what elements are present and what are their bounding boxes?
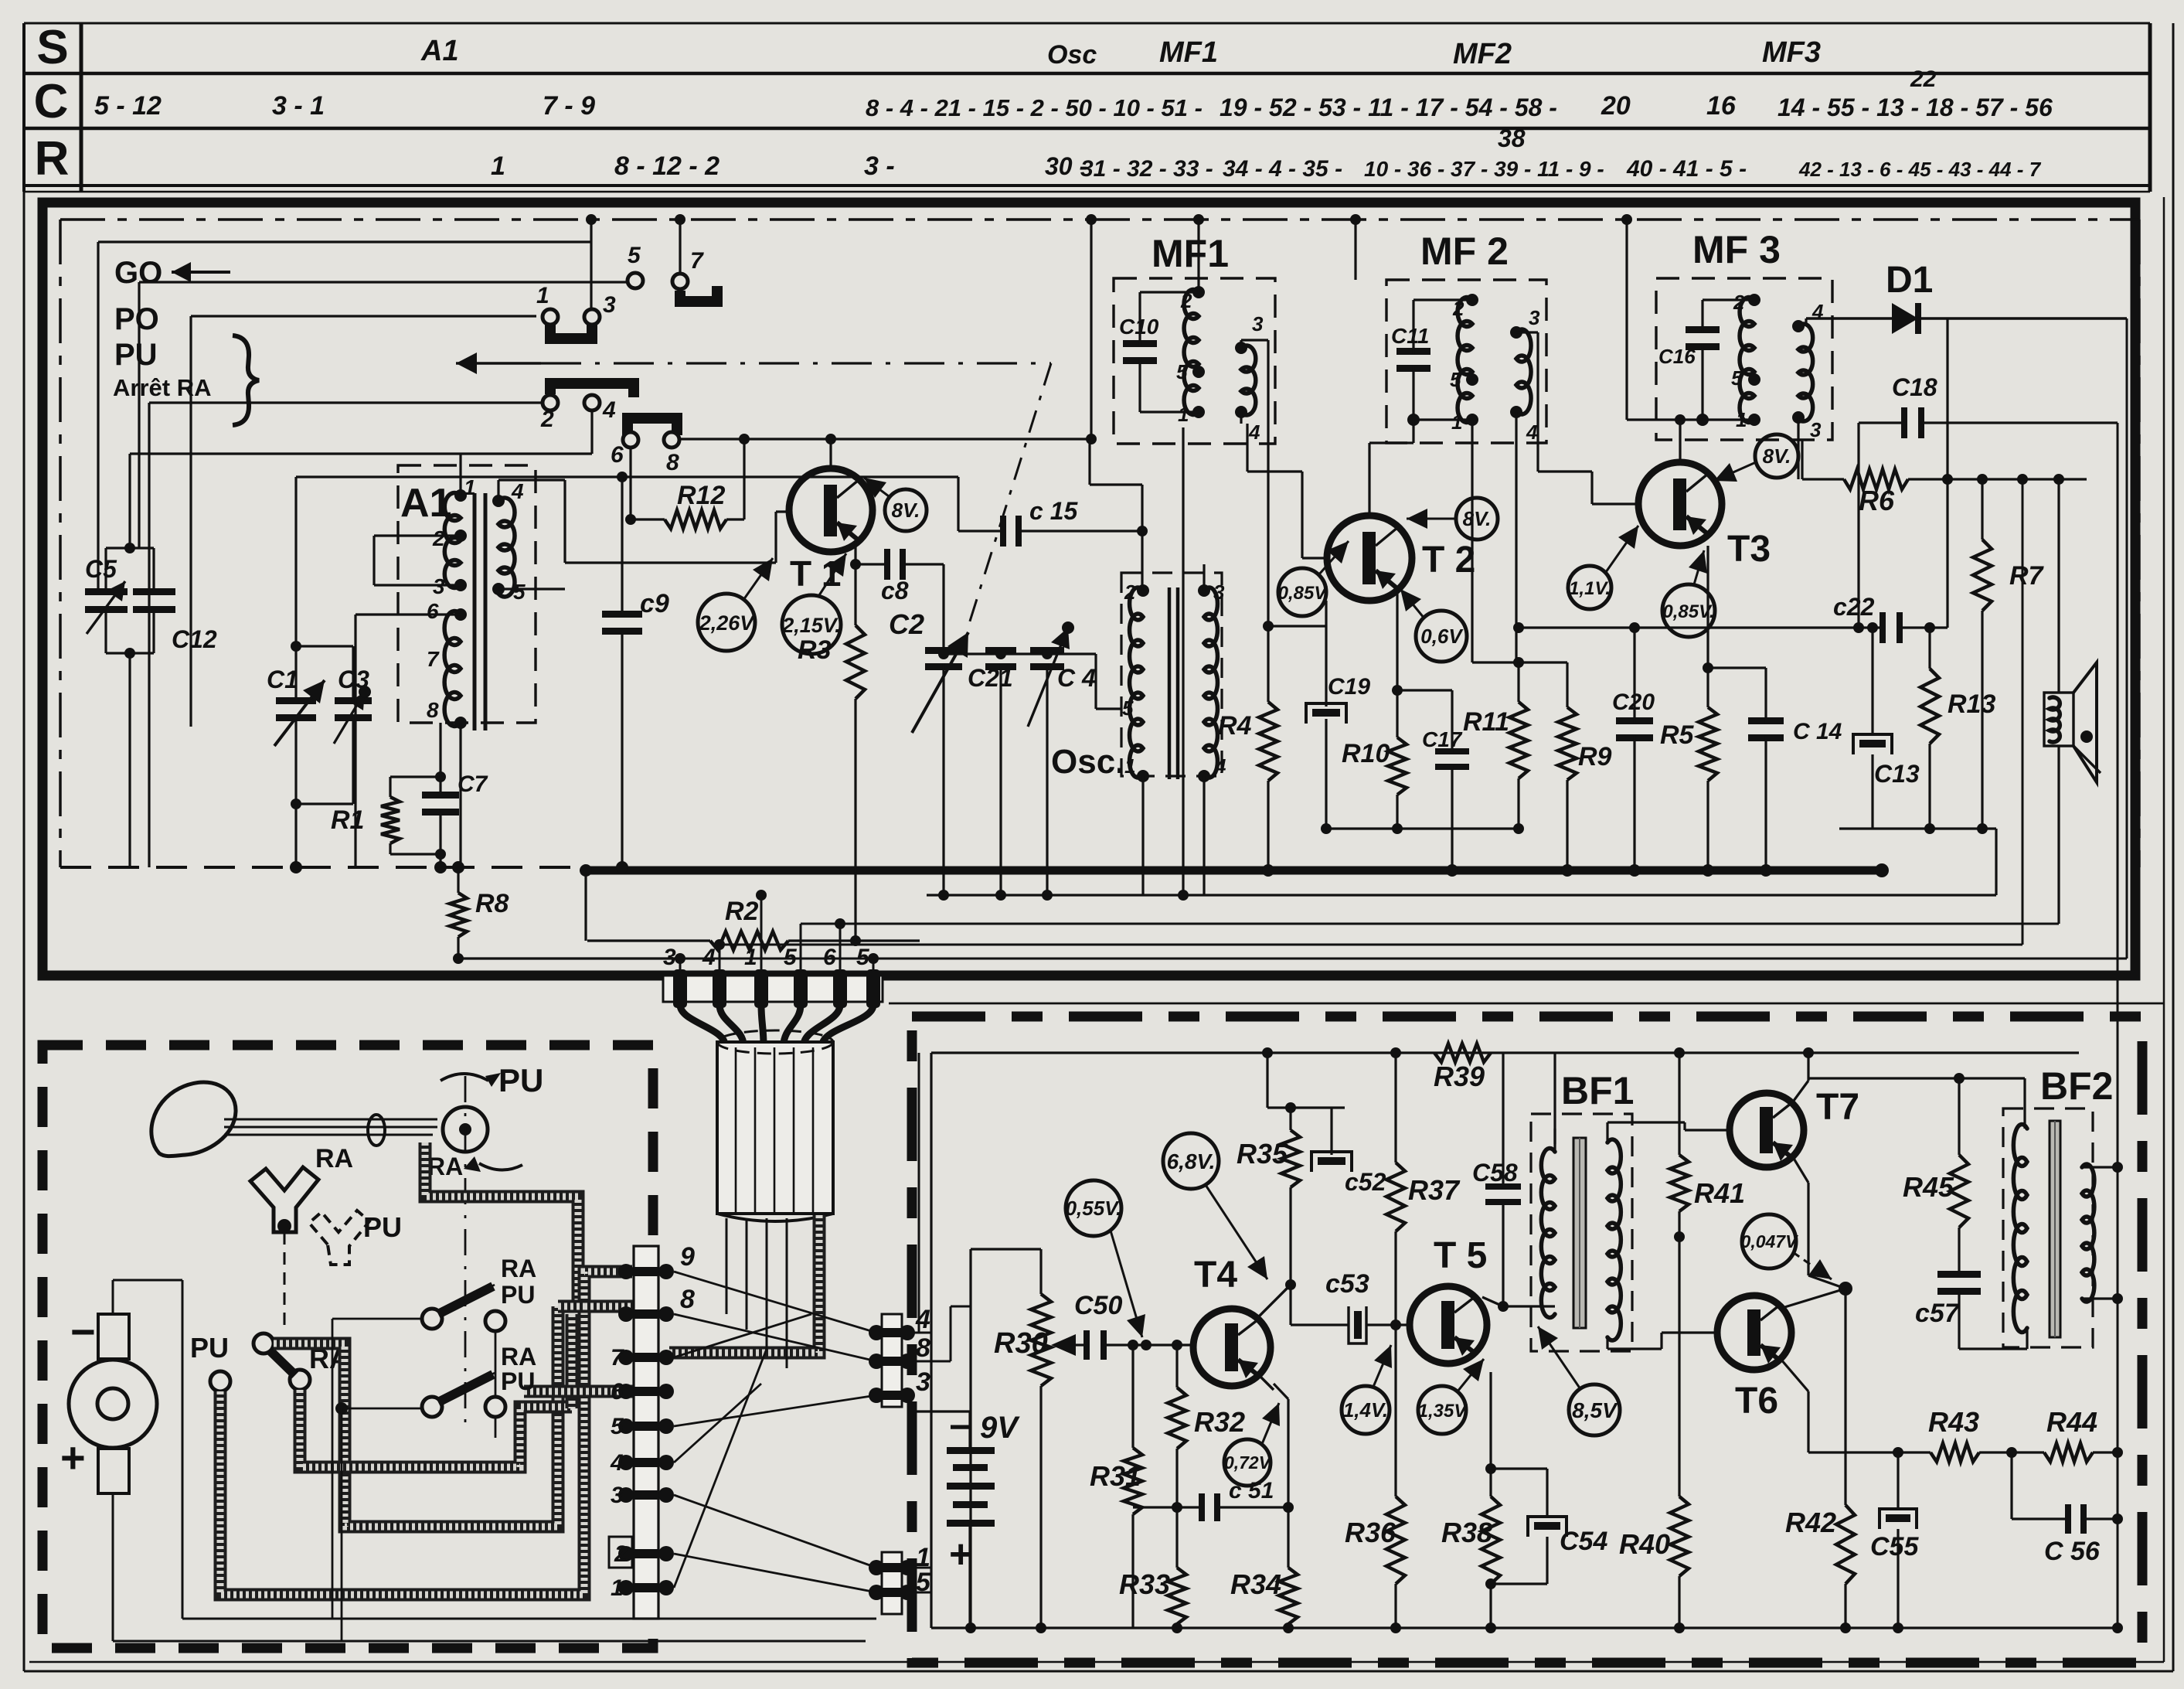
wire contact3 up: [590, 220, 592, 308]
svg-text:R33: R33: [1119, 1568, 1170, 1600]
svg-text:R44: R44: [2046, 1406, 2097, 1438]
Osc secondary top wire: [1203, 564, 1205, 591]
svg-text:c22: c22: [1833, 593, 1875, 621]
svg-text:c52: c52: [1345, 1168, 1386, 1196]
osc feed wire: [1094, 654, 1097, 709]
upper block inner dash-dot border left: [59, 220, 62, 867]
gang linkage diagonal: [968, 363, 1051, 626]
T7 collector rail: [1808, 1077, 2025, 1079]
switch contact 5: [628, 273, 643, 288]
strip terminal 9: [618, 1264, 634, 1279]
terminal 3: [869, 1388, 884, 1403]
svg-text:MF1: MF1: [1152, 232, 1229, 275]
svg-text:5: 5: [628, 243, 641, 268]
svg-text:−: −: [70, 1307, 96, 1356]
MF3 secondary coil: [1798, 324, 1813, 421]
svg-text:Osc.: Osc.: [1051, 743, 1124, 781]
transformer BF1 dashed box: [1531, 1114, 1632, 1351]
cable from RA lever: [274, 1306, 558, 1527]
T2 emitter wire: [1396, 589, 1398, 690]
T4 emitter to R34: [1231, 1386, 1233, 1399]
svg-text:0,6V: 0,6V: [1420, 625, 1464, 648]
svg-text:4: 4: [602, 397, 616, 423]
svg-text:0,85V.: 0,85V.: [1662, 601, 1714, 622]
svg-text:9: 9: [680, 1242, 695, 1272]
bias wire MF2 pin5: [1472, 661, 1567, 663]
svg-text:T4: T4: [1194, 1255, 1237, 1296]
AF block dashed border: [912, 1016, 2142, 1663]
svg-text:R8: R8: [475, 889, 509, 918]
gang caps top wire: [944, 652, 1096, 655]
transistor T4: [1193, 1309, 1271, 1386]
svg-text:34 - 4 - 35 -: 34 - 4 - 35 -: [1223, 156, 1342, 182]
mid switch pair upper RA PU: [422, 1309, 442, 1329]
svg-text:40 - 41 - 5 -: 40 - 41 - 5 -: [1626, 156, 1747, 182]
voltage 0,047V: [1742, 1214, 1796, 1268]
MF3 secondary pin3 wire down: [1797, 417, 1799, 479]
voltage 8V at T1: [885, 489, 927, 531]
svg-text:3 -: 3 -: [864, 152, 895, 181]
right terminal block lower: [882, 1552, 902, 1614]
voltage 0,85V at T3: [1662, 584, 1715, 637]
MF2 secondary pin3 wire: [1516, 331, 1538, 333]
mid switch pair lower RA PU: [422, 1397, 442, 1417]
svg-text:8,5V: 8,5V: [1572, 1398, 1618, 1422]
transistor T5: [1410, 1286, 1487, 1364]
BF2 secondary top: [2082, 1166, 2118, 1168]
svg-text:c9: c9: [640, 589, 669, 618]
svg-text:2: 2: [1733, 291, 1745, 314]
svg-text:C58: C58: [1472, 1159, 1518, 1187]
svg-text:3: 3: [1213, 581, 1225, 604]
svg-text:31 - 32 - 33 -: 31 - 32 - 33 -: [1080, 156, 1213, 182]
T7 emitter down: [1793, 1157, 1808, 1183]
svg-text:0,72V: 0,72V: [1224, 1452, 1272, 1473]
svg-text:C 14: C 14: [1793, 719, 1842, 744]
svg-text:3: 3: [603, 292, 616, 318]
strip terminal 6: [618, 1384, 634, 1399]
vertical D1 output: [1946, 318, 1948, 479]
cable bundle fan wires: [680, 1005, 725, 1045]
svg-text:5: 5: [1731, 366, 1743, 390]
wire to contact 2: [149, 401, 542, 404]
svg-text:3 - 1: 3 - 1: [272, 91, 325, 121]
C1 C3 bottom wires: [294, 720, 297, 804]
svg-text:R3: R3: [798, 635, 832, 665]
connector pin 4: [713, 969, 726, 1008]
voltage 0,55V: [1066, 1180, 1121, 1236]
svg-text:C19: C19: [1328, 674, 1370, 700]
svg-text:C 4: C 4: [1057, 664, 1096, 692]
connector pin 3: [673, 969, 687, 1008]
svg-text:PU: PU: [501, 1367, 535, 1395]
transistor T7: [1730, 1093, 1804, 1167]
svg-text:Osc: Osc: [1047, 40, 1097, 70]
svg-text:4: 4: [1214, 754, 1226, 778]
voltage 1,4V: [1342, 1386, 1390, 1434]
connector pin 6: [833, 969, 847, 1008]
svg-text:R34: R34: [1230, 1568, 1281, 1600]
BF2 secondary bottom: [2082, 1297, 2118, 1299]
MF2 pin5 wire down: [1471, 380, 1473, 443]
pulley axis dash line: [464, 1076, 467, 1430]
svg-text:2: 2: [614, 1541, 628, 1567]
svg-text:RA: RA: [427, 1153, 463, 1180]
AF bottom wire: [931, 1626, 2118, 1629]
svg-text:R45: R45: [1903, 1171, 1954, 1203]
svg-text:1,1V.: 1,1V.: [1569, 578, 1611, 599]
svg-text:3: 3: [1252, 312, 1264, 335]
svg-text:8V.: 8V.: [1463, 507, 1492, 530]
svg-text:7: 7: [611, 1345, 624, 1371]
svg-text:R2: R2: [725, 897, 759, 926]
header table frame: [24, 22, 2150, 25]
svg-text:S: S: [36, 21, 68, 74]
svg-text:C55: C55: [1870, 1532, 1919, 1561]
R1 C7 wires: [389, 777, 391, 797]
svg-text:MF 3: MF 3: [1692, 228, 1781, 271]
capacitor C8: [856, 563, 886, 565]
BF2 secondary coil: [2082, 1164, 2094, 1302]
svg-text:R13: R13: [1948, 690, 1995, 719]
svg-text:R10: R10: [1342, 739, 1390, 768]
MF3 top feed: [1625, 220, 1628, 420]
svg-text:8: 8: [916, 1333, 930, 1363]
svg-text:T3: T3: [1727, 529, 1771, 570]
AF inner wires from pins: [919, 1052, 931, 1054]
connector pin 5: [866, 969, 880, 1008]
voltage 0,85V at T2: [1278, 568, 1326, 616]
Osc wires: [1141, 531, 1143, 591]
BF1 secondary top wire: [1606, 1122, 1608, 1142]
switch contact 2-4: [550, 383, 634, 397]
Osc core: [1168, 587, 1172, 779]
MF1 wires: [1138, 292, 1141, 346]
Y lever RA: [250, 1167, 318, 1232]
capacitor C16: [1686, 326, 1720, 333]
svg-text:R9: R9: [1578, 742, 1612, 771]
svg-text:1,4V.: 1,4V.: [1343, 1398, 1388, 1422]
MF2 primary pin1 to T2 collector: [1412, 420, 1414, 443]
T1 collector wire: [829, 439, 832, 469]
svg-text:5: 5: [513, 580, 526, 604]
voltage 6,8V: [1163, 1133, 1219, 1189]
svg-text:R1: R1: [331, 805, 364, 835]
transformer BF2 dashed box: [2003, 1108, 2093, 1347]
capacitor C15: [957, 477, 959, 531]
svg-text:R7: R7: [2009, 561, 2045, 591]
Y lever PU dashed: [309, 1211, 369, 1265]
right terminal block upper: [882, 1314, 902, 1407]
svg-text:3: 3: [663, 945, 676, 970]
svg-text:2: 2: [432, 526, 445, 550]
terminal 5: [869, 1585, 884, 1600]
T2 collector wire: [1368, 443, 1370, 516]
head wires to pulley: [224, 1119, 437, 1121]
motor: [69, 1360, 157, 1448]
svg-text:5: 5: [611, 1414, 624, 1439]
BF1 secondary coil: [1607, 1139, 1621, 1340]
svg-text:8V.: 8V.: [892, 499, 920, 522]
svg-text:PU: PU: [498, 1062, 543, 1098]
MF2 secondary pin4 down: [1515, 412, 1517, 420]
tape head balloon: [151, 1082, 236, 1156]
svg-text:R5: R5: [1660, 720, 1695, 750]
terminal strip: [634, 1246, 658, 1619]
svg-text:D1: D1: [1886, 260, 1933, 301]
svg-text:PO: PO: [114, 302, 159, 336]
svg-text:MF2: MF2: [1453, 38, 1512, 70]
terminal 8: [869, 1354, 884, 1369]
transistor T1: [789, 468, 873, 552]
svg-text:BF2: BF2: [2040, 1064, 2113, 1108]
A1 primary coil: [444, 493, 461, 588]
battery wires: [968, 1411, 971, 1447]
T1 base wire: [776, 510, 789, 512]
svg-text:Arrêt RA: Arrêt RA: [113, 374, 211, 401]
svg-text:R40: R40: [1619, 1528, 1670, 1560]
cable cylinder: [717, 1042, 833, 1214]
long wire C18 to AF right: [2117, 423, 2119, 1628]
svg-text:42 - 13 - 6 - 45 - 43 - 44 - 7: 42 - 13 - 6 - 45 - 43 - 44 - 7: [1798, 158, 2042, 181]
wire y812 AGC: [1513, 622, 1524, 633]
connector pin 1: [754, 969, 768, 1008]
capacitor C10: [1123, 340, 1157, 347]
switch contact 6-8: [628, 418, 677, 435]
svg-text:2,26V: 2,26V: [699, 611, 756, 635]
strip terminal 4: [618, 1455, 634, 1470]
svg-text:4: 4: [702, 945, 716, 970]
svg-text:c8: c8: [881, 577, 909, 604]
svg-text:R12: R12: [677, 481, 725, 510]
terminal 1: [869, 1560, 884, 1575]
A1 core: [473, 493, 477, 730]
wire y1158 long: [927, 894, 1996, 896]
svg-text:6: 6: [611, 442, 624, 468]
voltage 2,15V: [782, 595, 841, 654]
svg-text:7 - 9: 7 - 9: [543, 91, 595, 121]
svg-text:6,8V.: 6,8V.: [1167, 1149, 1216, 1173]
svg-text:7: 7: [427, 647, 440, 671]
svg-text:8V.: 8V.: [1763, 444, 1791, 468]
svg-text:1: 1: [744, 945, 757, 970]
transistor T3: [1638, 462, 1722, 546]
strip terminal 1: [618, 1580, 634, 1595]
T4 base bias: [1132, 1345, 1134, 1421]
transformer A1 dashed box: [398, 465, 536, 723]
MF2 wires: [1412, 300, 1414, 354]
svg-text:c 51: c 51: [1229, 1478, 1274, 1503]
C1 C3 top wires: [294, 646, 297, 698]
lower left block dashed border: [43, 1045, 653, 1648]
wire R8 bottom: [458, 957, 680, 959]
svg-text:8: 8: [427, 698, 439, 722]
svg-text:C16: C16: [1658, 345, 1696, 368]
left switch PU contact: [210, 1371, 230, 1391]
svg-text:22: 22: [1910, 66, 1937, 92]
tuning dash-dot line with arrow: [456, 362, 541, 364]
transistor T2: [1327, 516, 1412, 601]
T7 collector: [1793, 1081, 1808, 1105]
T4 collector: [1256, 1285, 1291, 1320]
svg-text:3: 3: [916, 1367, 930, 1397]
capacitor C11: [1396, 348, 1430, 355]
chassis dashed line left: [60, 866, 586, 869]
svg-text:T6: T6: [1735, 1381, 1778, 1422]
capacitor C52: [1318, 1157, 1345, 1165]
svg-text:+: +: [60, 1433, 86, 1482]
wire below upper block: [889, 1003, 2164, 1005]
voltage 8V at T3: [1755, 434, 1798, 478]
capacitor C21: [985, 647, 1016, 654]
BF1 wires: [1553, 1144, 1556, 1152]
pulley PU: [443, 1107, 488, 1152]
MF2 transformer dashed box: [1386, 280, 1546, 443]
svg-text:3: 3: [1529, 306, 1540, 329]
svg-text:−: −: [949, 1407, 971, 1448]
voltage 0,72V: [1224, 1439, 1271, 1486]
svg-text:5: 5: [784, 945, 798, 970]
svg-text:PU: PU: [190, 1332, 229, 1364]
cable from RA contact down: [300, 1390, 572, 1467]
svg-text:MF 2: MF 2: [1420, 230, 1509, 273]
svg-text:38: 38: [1498, 124, 1526, 152]
svg-text:C12: C12: [172, 625, 217, 653]
svg-text:6: 6: [611, 1379, 624, 1405]
BF2 wires: [2026, 1078, 2028, 1129]
strip terminal 7: [618, 1350, 634, 1365]
svg-text:7: 7: [690, 248, 704, 274]
svg-text:9V: 9V: [980, 1411, 1020, 1445]
svg-text:R4: R4: [1218, 711, 1252, 741]
svg-text:R43: R43: [1928, 1406, 1979, 1438]
wire y313: [98, 240, 591, 243]
svg-text:4: 4: [610, 1450, 624, 1476]
svg-text:4: 4: [1526, 421, 1538, 444]
svg-text:C17: C17: [1422, 727, 1463, 751]
svg-text:T 2: T 2: [1422, 540, 1475, 581]
connector pin risers: [679, 959, 682, 976]
oscillator transformer dashed box: [1121, 573, 1222, 776]
motor wires: [112, 1280, 114, 1314]
T6 collector down: [1781, 1359, 1808, 1391]
svg-text:C50: C50: [1074, 1291, 1122, 1320]
svg-text:5: 5: [1176, 360, 1188, 383]
wire bus risers: [584, 867, 587, 941]
cable from PU contact down: [220, 1305, 584, 1595]
transistor T6: [1717, 1296, 1791, 1370]
T6 emitter up: [1781, 1299, 1808, 1306]
svg-text:1: 1: [536, 283, 549, 308]
MF3 wires: [1701, 300, 1703, 332]
selector brace: [233, 335, 259, 425]
svg-text:c57: c57: [1915, 1299, 1961, 1328]
svg-text:0,85V: 0,85V: [1278, 583, 1328, 604]
wire contact8 right: [679, 438, 744, 440]
AF secondary rail: [1267, 1106, 1345, 1108]
MF1 primary coil: [1184, 289, 1199, 414]
svg-text:19 - 52 - 53 - 11 - 17 - 54 -: 19 - 52 - 53 - 11 - 17 - 54 - 58 -: [1220, 94, 1557, 121]
voltage 8,5V: [1569, 1384, 1620, 1435]
strip terminal 3: [618, 1487, 634, 1503]
svg-text:4: 4: [915, 1305, 930, 1334]
svg-text:C1: C1: [267, 666, 298, 693]
speaker wires: [2057, 479, 2060, 693]
upper block inner dash-dot border right: [2138, 220, 2141, 867]
svg-text:5 - 12: 5 - 12: [94, 91, 162, 121]
svg-text:1: 1: [1451, 410, 1462, 434]
svg-text:6: 6: [427, 599, 439, 623]
svg-text:2,15V.: 2,15V.: [781, 614, 841, 637]
wire contact4 down: [590, 410, 593, 454]
svg-text:R: R: [35, 132, 70, 186]
strip terminal 2: [618, 1546, 634, 1561]
BF1 primary coil: [1541, 1148, 1555, 1317]
BF2 primary coil: [2013, 1125, 2027, 1333]
BF1 core bar: [1573, 1138, 1586, 1328]
svg-text:10 - 36 - 37 - 39 - 11 - 9 -: 10 - 36 - 37 - 39 - 11 - 9 -: [1364, 157, 1604, 181]
svg-text:3: 3: [611, 1483, 624, 1508]
svg-text:5: 5: [1122, 696, 1134, 720]
svg-text:C21: C21: [968, 664, 1013, 692]
wire top run y568: [744, 438, 1090, 440]
svg-text:8 - 12 - 2: 8 - 12 - 2: [614, 152, 719, 181]
svg-text:4: 4: [511, 479, 524, 503]
cable manifold: [566, 1314, 579, 1408]
T1 emitter wire: [854, 541, 856, 625]
svg-text:0,047V: 0,047V: [1741, 1231, 1799, 1251]
page outer border: [23, 192, 26, 1671]
svg-text:2: 2: [1124, 581, 1136, 604]
svg-text:0,55V.: 0,55V.: [1066, 1197, 1122, 1220]
T5 emitter: [1475, 1351, 1491, 1372]
AF top wire: [931, 1051, 2079, 1054]
wire to contact 1: [191, 315, 536, 317]
T5 collector wire: [1478, 1299, 1503, 1306]
svg-text:1: 1: [1178, 403, 1189, 426]
voltage 1,35V: [1418, 1386, 1466, 1434]
MF2 primary coil: [1458, 298, 1472, 423]
Osc primary coil: [1130, 587, 1143, 778]
wire y1072 right: [1839, 827, 1996, 829]
left vertical wires: [97, 242, 99, 595]
switch contact 7: [672, 274, 688, 289]
MF3 transformer dashed box: [1656, 278, 1832, 440]
ground bus (thick): [586, 867, 1882, 875]
switch contact 1-3: [550, 325, 592, 339]
svg-text:R41: R41: [1694, 1177, 1745, 1209]
A1 secondary coil: [498, 498, 515, 597]
long feedback wires lower: [801, 923, 2059, 925]
BF1 secondary bottom wire: [1606, 1339, 1608, 1349]
svg-text:5: 5: [1450, 368, 1461, 391]
terminal 4: [869, 1325, 884, 1340]
speaker: [2044, 693, 2073, 746]
upper RF block thick frame: [43, 203, 2135, 976]
voltage 1,1V at T3: [1568, 566, 1611, 609]
svg-text:R39: R39: [1434, 1061, 1485, 1092]
voltage 2,26V: [698, 594, 755, 651]
BF2 core bar: [2050, 1121, 2060, 1337]
wire y617 long: [296, 475, 958, 478]
svg-text:14 - 55 - 13 - 18 - 57 - 56: 14 - 55 - 13 - 18 - 57 - 56: [1777, 94, 2053, 121]
svg-text:RA: RA: [501, 1343, 536, 1371]
strip fan wires to right: [674, 1272, 876, 1333]
svg-text:R37: R37: [1408, 1174, 1461, 1206]
left switch RA lever: [253, 1333, 274, 1354]
upper block inner dash-dot border top: [60, 218, 2139, 221]
voltage 8V at T2: [1456, 498, 1498, 540]
